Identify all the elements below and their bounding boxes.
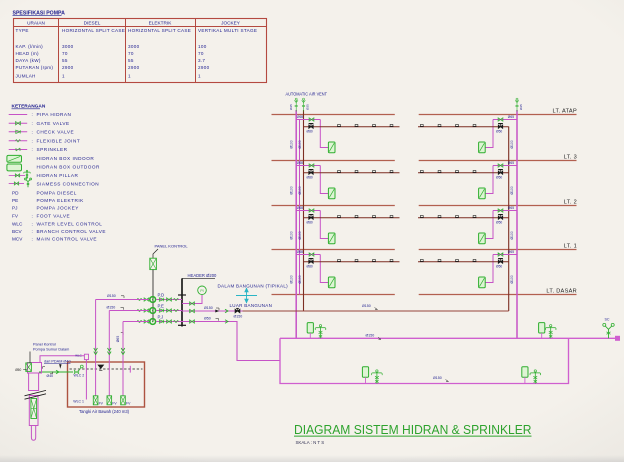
svg-text:HEAD (m): HEAD (m) [16, 51, 39, 56]
svg-text:Ø25: Ø25 [289, 104, 293, 110]
svg-text:Ø25: Ø25 [519, 104, 523, 110]
LT. 3 right branch gate valve [498, 164, 503, 167]
svg-text:Ø65: Ø65 [297, 161, 303, 165]
svg-text:JOCKEY: JOCKEY [221, 21, 241, 26]
submersible pump [31, 399, 37, 419]
main control valve [235, 309, 240, 313]
floor line LT. DASAR [272, 294, 395, 296]
svg-text:Ø100: Ø100 [290, 275, 294, 283]
outdoor hydrant box 1 [307, 323, 313, 333]
legend siamess connection [9, 183, 24, 185]
LT. 3 left hydrant box indoor [328, 188, 335, 199]
LT. 1 left hydrant box indoor [328, 277, 335, 288]
floor line LT. ATAP [272, 114, 395, 116]
svg-text:1: 1 [198, 73, 201, 78]
panel kontrol box [150, 258, 157, 269]
svg-text:PI: PI [200, 289, 203, 293]
LT. ATAP right hydrant box drop pipe [485, 120, 493, 148]
svg-text:Ø100: Ø100 [510, 275, 514, 283]
svg-text:SPRINKLER: SPRINKLER [37, 147, 68, 152]
floor line LT. 3 [272, 160, 395, 162]
svg-text:MAIN CONTROL VALVE: MAIN CONTROL VALVE [37, 237, 97, 242]
svg-text::: : [32, 129, 33, 134]
svg-text:Ø100: Ø100 [510, 140, 514, 148]
main discharge line (magenta part) [182, 310, 243, 312]
hydrant pillar 2 [550, 326, 552, 338]
LT. ATAP right hydrant branch pipe [493, 119, 517, 121]
pump P.J suction fittings [137, 320, 142, 322]
LT. 2 left sprinkler branch pipe [304, 217, 400, 219]
svg-text:Ø80: Ø80 [307, 175, 313, 179]
svg-text:Ø150: Ø150 [433, 376, 442, 380]
svg-text:Ø65: Ø65 [297, 250, 303, 254]
pump P.D [150, 297, 156, 303]
legend sprinkler [9, 149, 28, 151]
level mark [129, 366, 131, 373]
LT. 3 right hydrant box indoor [479, 188, 486, 199]
WLC1 drop line [40, 356, 84, 363]
pump P.E discharge fittings [156, 310, 182, 312]
svg-text:Tangki Air Bawah (240 m3): Tangki Air Bawah (240 m3) [79, 409, 130, 414]
svg-text:PE: PE [12, 198, 18, 203]
svg-text:1: 1 [128, 73, 131, 78]
LT. 2 right alarm check valve [498, 216, 502, 219]
LT. ATAP left sprinkler branch pipe [304, 126, 400, 128]
svg-text:WLC: WLC [12, 222, 23, 227]
fill size label [43, 367, 46, 369]
water level symbol [97, 365, 104, 369]
svg-text:WLC: WLC [75, 353, 81, 357]
LT. 2 right sprinkler heads [420, 216, 423, 218]
svg-text:Ø150: Ø150 [107, 294, 116, 298]
suction drop pipe x=109.3 [108, 311, 110, 396]
LT. 1 right hydrant box drop pipe [485, 255, 493, 283]
svg-text:LT. 3: LT. 3 [564, 155, 577, 161]
svg-text:Ø65: Ø65 [508, 250, 514, 254]
legend flexible joint [9, 140, 28, 142]
svg-text:3000: 3000 [128, 44, 140, 49]
LT. 2 right hydrant box indoor [479, 233, 486, 244]
svg-text:Ø65: Ø65 [297, 115, 303, 119]
svg-text:KAP. (l/min): KAP. (l/min) [16, 44, 44, 49]
svg-text:HORIZONTAL SPLIT CASE: HORIZONTAL SPLIT CASE [62, 28, 125, 33]
svg-text:DAYA (kW): DAYA (kW) [16, 58, 41, 63]
svg-text:Ø100: Ø100 [298, 140, 302, 148]
LT. 2 right branch gate valve [498, 209, 503, 212]
svg-text:FV: FV [12, 214, 19, 219]
air vent left 2 [303, 100, 305, 112]
svg-text:CHECK VALVE: CHECK VALVE [37, 129, 75, 134]
svg-text:P.E: P.E [158, 303, 165, 308]
svg-text:BCV: BCV [12, 229, 23, 234]
LT. 2 left hydrant branch pipe [296, 210, 320, 212]
LT. 1 left sprinkler heads [338, 260, 341, 262]
svg-text:SC: SC [605, 318, 610, 322]
water level dashed line [70, 368, 143, 370]
svg-text:Ø50: Ø50 [204, 317, 211, 321]
svg-text:HIDRAN PILLAR: HIDRAN PILLAR [37, 173, 79, 178]
svg-text:Ø100: Ø100 [290, 140, 294, 148]
hydrant pillar 4 [534, 371, 536, 383]
svg-text:P.D: P.D [158, 292, 165, 297]
LT. 1 right hydrant branch pipe [493, 254, 517, 256]
table column lines [58, 19, 60, 83]
svg-text:1: 1 [62, 73, 65, 78]
svg-text:Ø40: Ø40 [47, 374, 54, 378]
LT. 2 left hydrant box drop pipe [320, 211, 328, 239]
pump P.D suction pipe [96, 299, 136, 301]
svg-text:Ø80: Ø80 [307, 220, 313, 224]
svg-text:70: 70 [198, 51, 204, 56]
foot valve x=109.3 [107, 396, 112, 405]
outdoor hydrant box 3 [362, 367, 368, 377]
panel to pump wire [152, 270, 154, 322]
svg-text:WLC 2: WLC 2 [74, 373, 85, 377]
left sprinkler riser [303, 110, 305, 311]
siamese connection [608, 329, 610, 338]
svg-text:DIAGRAM SISTEM HIDRAN & SP: DIAGRAM SISTEM HIDRAN & SPRINKLER [294, 422, 532, 437]
LT. ATAP left branch gate valve [309, 118, 314, 121]
pump P.J [150, 319, 156, 325]
svg-text:AUTOMATIC AIR VENT: AUTOMATIC AIR VENT [286, 92, 328, 97]
svg-text:FV: FV [126, 401, 131, 405]
LT. 3 right sprinkler branch pipe [418, 172, 509, 174]
svg-text:Ø25: Ø25 [305, 104, 309, 110]
LT. 2 left sprinkler heads [338, 216, 341, 218]
LT. 2 right sprinkler branch pipe [418, 217, 509, 219]
LT. 3 left alarm check valve [309, 171, 313, 174]
deep well casing upper [29, 373, 39, 391]
LT. 3 left hydrant branch pipe [296, 165, 320, 167]
svg-text:3.7: 3.7 [198, 58, 205, 63]
sprinkler main to risers [243, 310, 509, 312]
svg-text::: : [32, 237, 33, 242]
svg-text:55: 55 [128, 58, 134, 63]
deep well casing lower [29, 396, 38, 426]
outdoor hydrant box 2 [539, 323, 545, 333]
LT. 3 right sprinkler heads [420, 171, 423, 173]
LT. 3 left sprinkler branch pipe [304, 172, 400, 174]
svg-text:Pompa Sumur Dalam: Pompa Sumur Dalam [33, 347, 69, 351]
svg-text:Ø150: Ø150 [362, 304, 371, 308]
hydrant pillar 3 [376, 371, 378, 383]
LT. 1 right sprinkler branch pipe [418, 261, 509, 263]
svg-text::: : [32, 121, 33, 126]
svg-text:Ø80: Ø80 [307, 129, 313, 133]
svg-text::: : [32, 138, 33, 143]
svg-text:PUTARAN (rpm): PUTARAN (rpm) [16, 65, 54, 70]
svg-text:Ø65: Ø65 [508, 206, 514, 210]
svg-text:2900: 2900 [62, 65, 74, 70]
LT. 1 right alarm check valve [498, 260, 502, 263]
svg-text:HEADER Ø200: HEADER Ø200 [188, 273, 218, 278]
svg-text:PANEL KONTROL: PANEL KONTROL [155, 244, 189, 249]
svg-text:Ø65: Ø65 [508, 115, 514, 119]
svg-text:Ø80: Ø80 [307, 264, 313, 268]
foot valve x=95.6 [93, 396, 98, 405]
right hydrant riser (main) [516, 110, 518, 338]
pump specification table frame [14, 19, 267, 83]
LT. 3 right alarm check valve [498, 171, 502, 174]
svg-text::: : [32, 222, 33, 227]
svg-text:Ø100: Ø100 [290, 231, 294, 239]
legend hidran box outdoor [7, 164, 22, 171]
svg-text:Ø100: Ø100 [298, 231, 302, 239]
svg-text:MCV: MCV [12, 237, 23, 242]
pump P.E suction fittings [137, 309, 142, 311]
svg-text:DIESEL: DIESEL [84, 21, 101, 26]
well panel box [26, 363, 32, 372]
svg-text:HIDRAN BOX OUTDOOR: HIDRAN BOX OUTDOOR [37, 165, 101, 170]
svg-text:Ø50: Ø50 [496, 264, 502, 268]
svg-text:P.J: P.J [158, 314, 164, 319]
svg-text:Ø100: Ø100 [290, 186, 294, 194]
svg-text:Ø65: Ø65 [297, 206, 303, 210]
svg-text:POMPA ELEKTRIK: POMPA ELEKTRIK [37, 198, 85, 203]
air vent right [516, 100, 518, 112]
svg-text:Ø150: Ø150 [107, 306, 116, 310]
svg-text:Panel Kontrol: Panel Kontrol [33, 343, 56, 347]
svg-text:PIPA HIDRAN: PIPA HIDRAN [37, 112, 72, 117]
LT. 3 left branch gate valve [309, 164, 314, 167]
svg-text:100: 100 [198, 44, 207, 49]
pressure gauge PI [198, 286, 207, 295]
svg-text::: : [32, 147, 33, 152]
svg-text:FV: FV [99, 401, 104, 405]
table header separator [14, 26, 267, 28]
svg-text:LT. DASAR: LT. DASAR [546, 289, 577, 295]
jockey discharge line [182, 322, 280, 361]
svg-text:70: 70 [128, 51, 134, 56]
floor line LT. 2 [272, 205, 395, 207]
LT. ATAP right alarm check valve [498, 125, 502, 128]
LT. 3 right hydrant box drop pipe [485, 166, 493, 194]
svg-text:HIDRAN BOX INDOOR: HIDRAN BOX INDOOR [37, 156, 95, 161]
legend check valve [9, 131, 28, 133]
svg-text:Ø150: Ø150 [366, 334, 375, 338]
svg-text:FV: FV [112, 401, 117, 405]
legend hidran pillar [9, 174, 25, 176]
LT. 1 left branch gate valve [309, 253, 314, 256]
well panel label [29, 352, 31, 363]
LT. 2 left alarm check valve [309, 216, 313, 219]
svg-text:FLEXIBLE JOINT: FLEXIBLE JOINT [37, 138, 81, 143]
svg-text:Ø100: Ø100 [510, 186, 514, 194]
svg-text:Ø50: Ø50 [15, 368, 21, 372]
svg-text:FOOT VALVE: FOOT VALVE [37, 214, 71, 219]
LT. 1 left hydrant box drop pipe [320, 255, 328, 283]
svg-text:Ø100: Ø100 [298, 275, 302, 283]
LT. ATAP right sprinkler heads [420, 125, 423, 127]
svg-text:55: 55 [62, 58, 68, 63]
legend hidran box indoor [7, 155, 22, 162]
legend pipa hidran [9, 114, 28, 116]
LT. 2 left branch gate valve [309, 209, 314, 212]
svg-text:JUMLAH: JUMLAH [16, 73, 36, 78]
svg-text:SKALA : N T S: SKALA : N T S [296, 440, 325, 445]
svg-text::: : [32, 112, 33, 117]
LT. ATAP right hydrant box indoor [479, 142, 486, 153]
svg-text:Ø150: Ø150 [204, 306, 213, 310]
svg-text:POMPA DIESEL: POMPA DIESEL [37, 190, 77, 195]
LT. ATAP left alarm check valve [309, 125, 313, 128]
air vent left 1 [295, 100, 297, 112]
svg-text:Ø100: Ø100 [510, 231, 514, 239]
outdoor hydrant box 4 [522, 367, 528, 377]
well pipe tip [31, 426, 35, 441]
svg-text:BRANCH CONTROL VALVE: BRANCH CONTROL VALVE [37, 229, 107, 234]
left hydrant riser (second) [299, 120, 301, 295]
svg-text:2900: 2900 [128, 65, 140, 70]
svg-text:SIAMESS CONNECTION: SIAMESS CONNECTION [37, 181, 100, 186]
loop end cap [616, 336, 620, 340]
deep well head [28, 363, 42, 374]
svg-text:LT. 2: LT. 2 [564, 200, 577, 206]
LT. 1 right hydrant box indoor [479, 277, 486, 288]
LT. 2 left hydrant box indoor [328, 233, 335, 244]
right sprinkler riser [508, 127, 510, 312]
svg-text:WLC 1: WLC 1 [73, 399, 84, 403]
svg-text:LUAR BANGUNAN: LUAR BANGUNAN [230, 303, 273, 308]
LT. ATAP left sprinkler heads [338, 125, 341, 127]
svg-text:LT. 1: LT. 1 [564, 244, 577, 250]
svg-text::: : [32, 214, 33, 219]
svg-text:Ø50: Ø50 [496, 129, 502, 133]
LT. ATAP left hydrant box indoor [328, 142, 335, 153]
PDAM fill line [39, 371, 73, 373]
svg-text:VERTIKAL MULTI STAGE: VERTIKAL MULTI STAGE [198, 28, 257, 33]
suction drop pipe x=95.6 [95, 300, 97, 396]
pump P.J discharge fittings [156, 321, 182, 323]
svg-text:GATE VALVE: GATE VALVE [37, 121, 70, 126]
LT. ATAP right branch gate valve [498, 118, 503, 121]
svg-text:dari PDAM Ø40: dari PDAM Ø40 [44, 359, 71, 363]
LT. 1 left sprinkler branch pipe [304, 261, 400, 263]
LT. 3 left hydrant box drop pipe [320, 166, 328, 194]
pump P.J suction pipe [123, 321, 136, 323]
float valve WLC2 [74, 370, 78, 373]
floor line LT. 1 [272, 249, 395, 251]
LT. 3 left sprinkler heads [338, 171, 341, 173]
pressure gauge line [182, 295, 202, 304]
ground water tank [68, 362, 145, 407]
suction drop pipe x=123 [122, 322, 124, 396]
pump P.D suction fittings [137, 298, 142, 300]
building boundary marker [236, 295, 257, 297]
pump P.E [150, 308, 156, 314]
LT. ATAP left hydrant box drop pipe [320, 120, 328, 148]
pump header [181, 278, 183, 326]
svg-text:Ø65: Ø65 [508, 161, 514, 165]
svg-text:ELEKTRIK: ELEKTRIK [149, 21, 173, 26]
svg-text:URAIAN: URAIAN [27, 21, 45, 26]
svg-text:WATER LEVEL CONTROL: WATER LEVEL CONTROL [37, 222, 103, 227]
LT. 2 right hydrant branch pipe [493, 210, 517, 212]
svg-text:HORIZONTAL SPLIT CASE: HORIZONTAL SPLIT CASE [128, 28, 191, 33]
svg-text:Ø50: Ø50 [496, 220, 502, 224]
outside hydrant loop main [280, 337, 617, 339]
svg-text:DALAM BANGUNAN (TIPIKAL): DALAM BANGUNAN (TIPIKAL) [218, 283, 289, 288]
left hydrant riser (main) [295, 110, 297, 338]
LT. 1 right branch gate valve [498, 253, 503, 256]
hydrant pillar 1 [320, 326, 322, 338]
LT. 2 right hydrant box drop pipe [485, 211, 493, 239]
LT. 1 left alarm check valve [309, 260, 313, 263]
svg-text:Ø50: Ø50 [496, 175, 502, 179]
LT. 1 right sprinkler heads [420, 260, 423, 262]
svg-text:LT. ATAP: LT. ATAP [553, 109, 577, 115]
svg-text:2900: 2900 [198, 65, 210, 70]
svg-text:Ø150: Ø150 [234, 314, 243, 318]
svg-text:Ø100: Ø100 [298, 186, 302, 194]
LT. 3 right hydrant branch pipe [493, 165, 517, 167]
svg-text:TYPE: TYPE [16, 28, 29, 33]
svg-text:PJ: PJ [12, 206, 17, 211]
svg-text:70: 70 [62, 51, 68, 56]
svg-text:PD: PD [12, 190, 19, 195]
pump P.E suction pipe [109, 310, 136, 312]
svg-text:Ø65: Ø65 [116, 336, 120, 343]
LT. ATAP right sprinkler branch pipe [418, 126, 509, 128]
foot valve x=123 [121, 396, 126, 405]
LT. ATAP left hydrant branch pipe [296, 119, 320, 121]
pump P.D discharge fittings [156, 299, 182, 301]
svg-text:POMPA JOCKEY: POMPA JOCKEY [37, 206, 80, 211]
legend gate valve [9, 122, 28, 124]
svg-text::: : [32, 229, 33, 234]
pipe break marks [25, 390, 47, 395]
svg-text:3000: 3000 [62, 44, 74, 49]
LT. 1 left hydrant branch pipe [296, 254, 320, 256]
